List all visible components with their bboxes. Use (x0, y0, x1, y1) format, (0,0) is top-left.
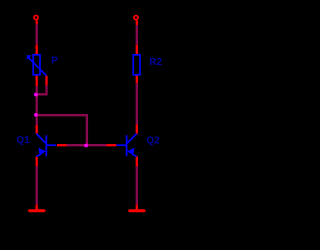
svg-text:Q1: Q1 (16, 135, 30, 146)
svg-text:Q2: Q2 (146, 136, 160, 147)
svg-text:R2: R2 (149, 57, 162, 68)
svg-text:P: P (51, 56, 58, 67)
